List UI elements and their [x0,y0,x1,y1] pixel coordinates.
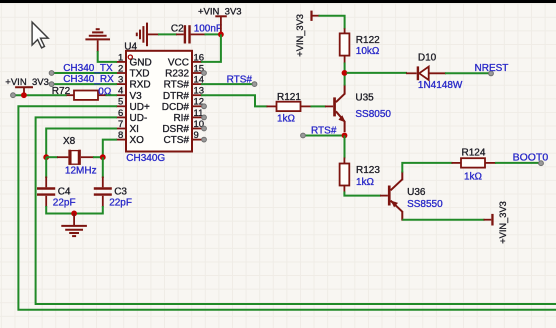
wire ground to pin 1 GND [98,51,117,62]
svg-text:1kΩ: 1kΩ [464,171,483,182]
svg-text:DTR#: DTR# [163,91,190,102]
pin 12 number [194,97,205,108]
junction dot XO node [100,154,106,160]
transistor U36 SS8550 [380,172,402,221]
gray end dot pin 12 [202,104,207,109]
wire UD- loop pin 6 [36,117,556,304]
pin 8 name XO [130,135,145,146]
pin 11 name RI# [173,113,189,124]
IC U4 value CH340G [126,153,165,164]
wire RTS# to U35 emitter node [303,135,345,137]
pin 13 name DTR# [163,91,190,102]
svg-text:+VIN_3V3: +VIN_3V3 [498,201,508,244]
pin 7 number [118,119,123,130]
svg-text:C4: C4 [58,187,71,198]
wire junction to D10 [347,72,408,74]
svg-text:100nF: 100nF [194,24,222,35]
pin 12 DCD# stub [192,105,202,107]
ground symbol left of C2 (rotated) [137,23,159,47]
wire +VIN_3V3 to R72 [13,94,67,96]
pin 15 name R232 [165,69,189,80]
svg-text:RI#: RI# [173,113,189,124]
svg-text:U4: U4 [124,41,137,52]
pin 2 name TXD [130,69,150,80]
value 1N4148W of D10 [418,80,463,91]
resistor R72 [67,91,107,100]
svg-text:BOOT0: BOOT0 [513,151,549,163]
svg-text:1: 1 [118,52,123,63]
gray end dot left of R72 [11,93,16,98]
pin 11 RI# stub [192,116,202,118]
capacitor C4 [37,177,55,208]
wire net CH340_RX to pin 3 [52,83,117,85]
pin 14 number [194,75,205,86]
net label RTS# [227,74,253,85]
designator R123 [356,165,380,176]
wire ground to C2 [158,33,177,35]
wire emitter node to R123 [344,135,346,158]
wire XI node down to C4 [45,157,47,178]
pin 5 name UD+ [130,102,150,113]
power port +VIN_3V3 right-top (rotated) [295,11,320,57]
net label CH340_TX [63,63,113,74]
junction dot ground node [71,211,77,217]
designator R124 [462,147,486,158]
designator C2 [171,23,184,34]
svg-text:RTS#: RTS# [164,80,190,91]
pin 12 name DCD# [162,102,190,113]
value 22pF of C4 [53,198,76,209]
wire pin 14 RTS# [201,83,255,85]
wire XI node to X8 [46,156,58,158]
junction dot at +VIN_3V3 stem [21,92,27,98]
gray end dot pin 15 [202,71,207,76]
value 10kΩ of R122 [356,46,380,57]
pin 5 number [118,97,123,108]
svg-text:XI: XI [130,124,139,135]
pin 14 name RTS# [164,80,190,91]
junction dot VCC net [218,32,224,38]
gray end dot CH340_TX [49,71,54,76]
svg-text:SS8550: SS8550 [407,199,443,210]
pin 1 number [118,52,123,63]
value 0Ω of R72 [98,86,112,97]
wire D10 to NREST [445,72,491,74]
IC U4 designator U4 [124,41,137,52]
svg-text:2: 2 [118,63,123,74]
resistor R123 [340,158,350,193]
wire net CH340_TX to pin 2 [52,72,117,74]
svg-text:TXD: TXD [130,69,150,80]
transistor U35 SS8050 [325,85,346,133]
resistor R122 [340,28,350,63]
power port +VIN_3V3 bottom-right (rotated) [484,201,508,244]
svg-text:+VIN_3V3: +VIN_3V3 [295,14,305,57]
svg-text:RTS#: RTS# [311,126,337,137]
svg-text:7: 7 [118,119,123,130]
gray end dot NREST [489,71,494,76]
ground symbol top (inverted) [85,29,110,52]
svg-text:R232: R232 [165,69,189,80]
wire R121 to U35 base [311,105,327,107]
svg-text:10kΩ: 10kΩ [356,46,380,57]
gray end dot pin 11 [202,115,207,120]
pin 3 name RXD [130,80,151,91]
wire X8 to XO node [93,156,103,158]
svg-text:22pF: 22pF [109,198,132,209]
pin 4 number [118,86,123,97]
svg-text:SS8050: SS8050 [355,109,391,120]
capacitor C2 [176,25,206,43]
pin 7 XI stub [116,128,126,130]
gray end dot CH340_RX [49,82,54,87]
pin 5 UD+ stub [116,105,126,107]
mouse cursor [32,22,48,48]
designator U36 [407,187,426,198]
wire R122 to junction [344,63,346,73]
wire VCC junction down to pin 16 [201,34,221,62]
wire U36 emitter to power [402,219,484,221]
ground symbol bottom [61,213,87,236]
gray end dot RTS# 2 [301,133,306,138]
pin 10 DSR# stub [192,128,202,130]
pin 2 number [118,63,123,74]
svg-text:NREST: NREST [475,63,509,74]
wire R124 to BOOT0 [495,162,541,164]
svg-text:VCC: VCC [168,58,189,69]
designator C4 [58,187,71,198]
svg-text:9: 9 [194,130,199,141]
svg-text:CTS#: CTS# [163,135,189,146]
wire pin 13 DTR# to R121 [201,95,268,106]
value SS8550 of U36 [407,199,443,210]
svg-text:8: 8 [118,130,123,141]
svg-text:U36: U36 [407,187,426,198]
pin 1 name GND [130,58,152,69]
net label CH340_RX [63,74,114,85]
pin 15 number [194,63,205,74]
svg-text:R72: R72 [52,86,71,97]
wire C4 C3 to ground [46,206,103,214]
pin 11 number [194,108,204,119]
wire pin 8 XO down [103,140,117,158]
svg-text:1kΩ: 1kΩ [356,177,375,188]
svg-text:C2: C2 [171,23,184,34]
wire U36 collector to R124 [402,163,452,173]
pin 9 CTS# stub [192,139,202,141]
pin 9 number [194,130,199,141]
crystal X8 12MHz [57,150,94,165]
power port +VIN_3V3 top [198,7,242,33]
pin 10 number [194,119,205,130]
designator R72 [52,86,71,97]
gray end dot RTS# [252,82,257,87]
IC U4 pin-1 indicator circle [128,55,132,59]
wire UD+ loop pin 5 [18,106,556,309]
pin 13 DTR# stub [192,94,202,96]
svg-text:3: 3 [118,75,123,86]
toolbar edge top [0,0,556,3]
pin 4 V3 stub [116,94,126,96]
svg-text:V3: V3 [130,91,143,102]
svg-text:6: 6 [118,108,123,119]
pin 6 number [118,108,123,119]
pin 3 number [118,75,123,86]
wire power to R122 [319,16,345,30]
value 22pF of C3 [109,198,132,209]
wire R72 to pin 4 V3 [106,94,118,96]
value 1kΩ of R121 [277,114,296,125]
capacitor C3 [94,177,112,208]
wire XO node down to C3 [102,157,104,178]
pin 10 name DSR# [162,124,189,135]
designator R122 [356,35,380,46]
svg-text:R122: R122 [356,35,380,46]
pin 7 name XI [130,124,139,135]
svg-text:D10: D10 [418,53,437,64]
resistor R121 [267,102,312,111]
svg-text:5: 5 [118,97,123,108]
wire pin 7 XI to crystal [46,129,117,158]
svg-text:R124: R124 [462,147,486,158]
designator X8 [63,136,76,147]
svg-text:RTS#: RTS# [227,74,253,85]
power port +VIN_3V3 left [5,77,49,93]
value 100nF of C2 [194,24,222,35]
IC U4 CH340G body [126,51,192,152]
svg-text:U35: U35 [355,93,374,104]
pin 16 VCC stub [192,61,202,63]
pin 1 GND stub [116,61,126,63]
svg-text:22pF: 22pF [53,198,76,209]
designator R121 [277,92,301,103]
svg-text:1N4148W: 1N4148W [418,80,463,91]
value SS8050 of U35 [355,109,391,120]
pin 8 number [118,130,123,141]
svg-text:CH340_RX: CH340_RX [63,74,114,85]
value 1kΩ of R124 [464,171,483,182]
pin 13 number [194,86,205,97]
net label RTS# 2 [311,126,337,137]
svg-text:12MHz: 12MHz [65,166,97,177]
svg-text:DCD#: DCD# [162,102,190,113]
wire R123 to U36 base [344,192,381,196]
pin 2 TXD stub [116,72,126,74]
pin 15 R232 stub [192,72,202,74]
junction dot collector node [342,70,348,76]
svg-text:UD+: UD+ [130,102,150,113]
pin 8 XO stub [116,139,126,141]
svg-text:UD-: UD- [130,113,148,124]
svg-text:DSR#: DSR# [162,124,189,135]
svg-text:CH340_TX: CH340_TX [63,63,113,74]
svg-text:C3: C3 [114,187,127,198]
net label BOOT0 [513,151,549,163]
designator U35 [355,93,374,104]
designator C3 [114,187,127,198]
pin 16 name VCC [168,58,189,69]
value 12MHz of X8 [65,166,97,177]
wire C2 to VCC junction [205,33,221,35]
junction dot emitter node [342,133,348,139]
pin 6 UD- stub [116,116,126,118]
svg-text:XO: XO [130,135,145,146]
svg-text:RXD: RXD [130,80,151,91]
pin 16 number [194,52,205,63]
pin 14 RTS# stub [192,83,202,85]
svg-text:1kΩ: 1kΩ [277,114,296,125]
diode D10 1N4148W [406,66,446,80]
svg-text:CH340G: CH340G [126,153,165,164]
value 1kΩ of R123 [356,177,375,188]
svg-text:R123: R123 [356,165,380,176]
designator D10 [418,53,437,64]
pin 3 RXD stub [116,83,126,85]
gray end dot pin 10 [202,126,207,131]
resistor R124 [452,158,497,167]
svg-text:GND: GND [130,58,152,69]
wire collector U35 to junction [344,73,346,86]
svg-text:4: 4 [118,86,123,97]
pin 9 name CTS# [163,135,189,146]
net label NREST [475,63,509,74]
junction dot XI node [43,154,49,160]
pin 6 name UD- [130,113,148,124]
svg-text:X8: X8 [63,136,76,147]
gray end dot pin 9 [202,137,207,142]
svg-text:R121: R121 [277,92,301,103]
pin 4 name V3 [130,91,143,102]
gray end dot BOOT0 [539,161,544,166]
